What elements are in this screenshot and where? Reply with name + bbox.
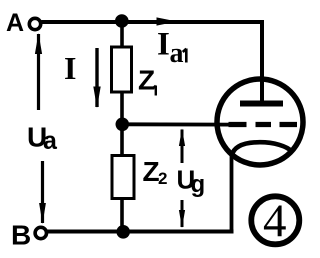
figure number badge circle [251,196,299,244]
voltage arrow Ua lower segment [41,161,44,223]
voltage arrow Ug lower segment [181,200,184,227]
voltage arrow Ua lower head [39,203,46,224]
svg-text:Z: Z [138,65,155,96]
wire cathode lead [230,154,234,232]
svg-text:I: I [64,50,76,86]
junction node bottom of Z branch [116,225,130,239]
svg-text:I: I [157,27,170,63]
junction node between Z1 and Z2 [116,118,130,132]
voltage arrow Ug upper segment [181,130,184,164]
voltage arrow Ug upper head [179,129,185,147]
current arrow I head [93,87,100,109]
wire Z branch vertical [120,21,124,231]
terminal A [29,18,40,29]
svg-text:a: a [170,38,184,69]
terminal B [35,227,46,238]
svg-text:a: a [43,127,58,155]
impedance Z2 [112,156,134,199]
triode cathode dome [232,142,293,156]
triode envelope [217,79,303,165]
voltage arrow Ug lower head [179,210,185,228]
voltage arrow Ua upper head [35,33,42,54]
wire bottom rail from B to cathode lead [48,230,234,234]
wire top rail from A to anode corner and down [42,22,263,102]
svg-text:g: g [191,171,206,198]
svg-text:B: B [11,220,31,251]
triode anode plate [240,101,283,107]
current arrow I line [95,48,98,107]
wire grid lead [122,122,233,126]
svg-text:4: 4 [263,195,287,247]
current arrow Ia1 head [157,17,178,25]
voltage arrow Ua upper segment [37,34,40,110]
svg-text:2: 2 [158,169,167,188]
junction node top of Z branch [115,14,129,28]
impedance Z1 [112,47,132,92]
triode grid dashes [229,122,298,127]
svg-text:A: A [6,9,24,37]
